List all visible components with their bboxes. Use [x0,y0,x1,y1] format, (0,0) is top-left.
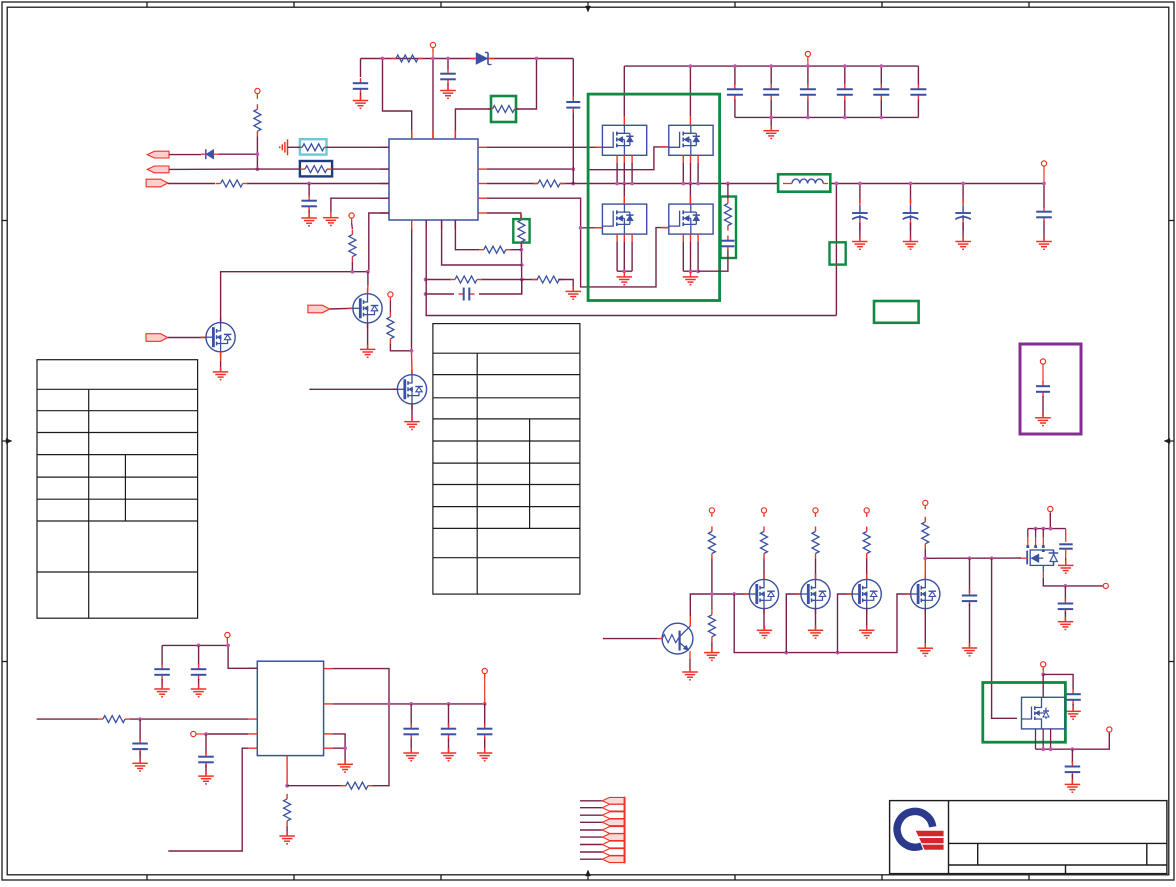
wire - phase bus from U1 to output [487,183,1044,185]
resistor R16 vertical [284,794,291,826]
ground below C2 [440,86,456,99]
ground below M6 [859,625,875,638]
junction dots boot node [571,167,575,185]
chassis ground symbol (rotated, left of R3) [280,139,292,155]
ground below C23 [441,748,456,761]
terminal pull-up 5 [923,500,928,509]
U1 pin stubs [380,130,487,229]
wire - R2 left lead to U1 top pin [455,109,491,139]
capacitor C10 filter [301,184,317,218]
connector J6 pin 1 [580,797,624,804]
wire - branch from rail down to U1 VCC pins [383,59,434,140]
diode D1 (schottky) on rail [470,53,494,65]
wire - M3 source to ground [411,404,413,421]
resistor R15 [98,716,130,723]
wire - U2 out bus y=703.9 [333,703,485,705]
wire - VBUS feeds to Q1 and Q2 drains [624,64,692,125]
wire - R3 to U1 pin [292,146,389,148]
capacitor C27 [1058,586,1074,621]
ground below R19 [704,648,720,661]
junction dot U2 gnd [285,784,289,788]
connector J4 [146,334,168,342]
ground below C16 [1036,237,1052,250]
wire - opto emitter to ground [689,651,691,671]
table (notes, left) [37,360,198,619]
connector J6 pin 5 [580,827,624,834]
wire - boot cap branch joins phase bus [572,166,574,184]
wire - feedback line into U2 [37,718,249,720]
fuse F1 green highlight box [830,242,846,264]
terminal pull-up 3 [813,508,818,517]
wire - M7 source to ground [924,609,926,648]
junction dot Q5 out [1064,584,1068,588]
resistor R20 vertical [761,527,768,559]
wire - U1 pin y=169 to boot node [487,168,573,170]
resistor R3 in cyan highlight box [297,139,329,154]
wire - U1 pin y=213 to sense divider [487,213,521,219]
capacitor C5 bulk bank [763,84,779,100]
ground below C24 [477,748,493,761]
capacitor C26 [1059,529,1073,565]
regulator U2 IC [257,661,323,755]
transistor M2 (circle MOSFET) [347,288,382,328]
capacitor C7 bulk bank [837,84,853,100]
ground at U1 pin (y=198) [323,198,389,225]
wire - M6 gate riser [838,594,853,653]
wire - R14 to M3 drain node [390,344,413,353]
junction dots cap bank [733,64,883,119]
op-amp / controller U1 main IC [389,139,478,220]
capacitor C24 [477,704,493,752]
wire - drain node to cap branch [1043,674,1073,690]
wire - M3 gate long lead [309,388,397,390]
wire - U1 pin x=411.7 down to M3 drain [411,229,414,375]
ground below C25 [962,643,977,656]
capacitor C29 [1065,749,1081,783]
wire - source finger stubs [1026,529,1044,552]
capacitor C2 with ground [440,59,456,90]
ground below R16 [279,831,295,844]
transistor M3 (circle MOSFET) [392,369,427,409]
wire - row y=294 with C11 [426,280,522,295]
connector J6 pin 6 [580,834,624,841]
terminal VOUT right [1041,161,1046,184]
wire - R18 to gate bus [711,559,713,595]
junction dots source rails [622,269,700,273]
capacitor C4 bulk bank [727,84,743,100]
junction dot at filter node [307,182,311,186]
junction dots node y=271.7 [351,270,370,274]
resistor R17 [341,782,373,789]
ground at U2 right [337,759,353,772]
terminal pull-up 4 [864,508,869,517]
wire - U2 out pin y=668.6 to column [333,669,389,704]
junction dots input node [256,152,260,171]
wire - M5 gate riser [786,594,801,653]
terminal U2 VIN [225,632,230,645]
transistor Q4 (low-side right) [669,204,713,234]
ground below Q4 [683,272,698,285]
connector J1 (input A) [147,151,169,158]
wire - opto collector up to gate bus [690,594,750,626]
junction dots output bus [835,182,1046,186]
junction dots lower rail [784,651,839,655]
wire - U1 pin y=213 routed left and down [369,213,389,272]
ground below C13 [852,237,868,250]
capacitor C13 (polarized) [852,199,868,241]
capacitor C20 [132,719,148,762]
wire - Q1/Q2 source pins to phase bus [617,155,698,183]
terminal pull-up top [255,88,260,99]
wire - Q3/Q4 source pins to ground rails [617,234,698,271]
ground below C20 [132,758,148,771]
terminal VBUS [805,51,810,66]
wire - J1 to diode D2 [169,154,201,156]
spare green highlight box [874,301,919,323]
ground below C22 [403,748,419,761]
capacitor C14 (polarized) [903,199,919,241]
wire - R23 to M7 drain node [924,549,926,580]
connector J6 spine [624,797,626,864]
transistor Q5 (P-FET horizontal) [1021,550,1058,572]
ground below M2 [360,344,376,357]
capacitor C22 [403,704,419,752]
connector J6 pin 2 [580,804,624,811]
transistor M4 (circle MOSFET) [744,574,779,614]
resistor R22 vertical [863,527,870,559]
transistor M5 (circle MOSFET) [795,574,830,614]
wire - snubber top to phase bus [727,184,729,199]
resistor R5 in navy highlight box [300,161,332,176]
junction dot feedback [138,717,142,721]
wire - row y=250 to U1 pin [455,220,521,250]
wire - Q5 drain to output [1043,572,1106,586]
resistor R21 vertical [812,527,819,559]
connector J6 pin 3 [580,812,624,819]
wire - D2 to node at x=257.4 [219,153,258,155]
wire - drive input to opto [603,638,658,640]
junction dots divider column [520,248,524,282]
wire - gate bus drop and lower rail [734,594,911,653]
wire - R19 to ground [711,642,713,652]
resistor R6 [216,180,248,187]
wire - U2 GND pin with resistor to ground [286,765,288,786]
ground below C29 [1065,779,1081,792]
wire - P-FET source bus [1028,528,1066,530]
connector J3 (input C) [146,179,168,187]
resistor R7 on phase bus [533,180,565,187]
wire - Q6 source pins to rail [1036,729,1110,749]
ground below C14 [903,237,918,250]
resistor R13 vertical [349,223,356,262]
terminal inside purple box [1040,359,1045,383]
resistor R10 [450,276,482,283]
wire - EN to U2 [204,732,248,736]
terminal gate bias [388,292,393,301]
ground below M5 [808,625,823,638]
capacitor C28 [1065,689,1081,710]
wire - bus VBUS top y=66.1 [624,65,918,67]
wire - R5 to U1 [332,168,389,170]
capacitor C11 (horizontal) [459,288,475,301]
wire - U1 to Q1 gate [487,145,602,149]
wire - row y=785.7 to feedback column [287,704,389,786]
capacitor C21 [198,734,214,775]
wire - R21 to M5 drain [815,559,817,580]
wire - output cap stems [860,184,963,204]
wire - node y=558.3 to P-FET gate [925,557,1021,559]
connector J6 pin 8 [580,849,624,856]
wire - bus bottom of cap bank [735,116,919,118]
resistor R2 in green highlight box [488,96,520,122]
terminal U2 EN [191,731,206,736]
wire - U1 pin x=426 down and right (sense return) [426,220,836,316]
wire - U2 pin y=748 left and down [168,748,248,851]
connector J6 pin 9 [580,856,624,863]
connector J5 [308,305,330,313]
transistor M6 (circle MOSFET) [847,574,882,614]
wire - M1 drain up and right to node [221,272,368,323]
junction dots VIN node [197,644,230,648]
ground below C10 [301,213,317,226]
wire - node down to M2 drain [367,272,369,294]
wire - J2 to R5 [169,168,300,170]
wire - U2 pins y=734/748 to ground [333,734,347,763]
wire - R22 to M6 drain [866,559,868,580]
ground below opto [682,667,698,680]
ground below C27 [1058,617,1074,630]
ground below C19 [191,684,207,697]
junction dots Q6 rail [1041,747,1074,751]
wire - M4 source to ground [763,609,765,630]
capacitor C15 (polarized) [955,199,971,241]
diode D2 (pointing left) [201,149,219,159]
junction dots on x=426 column [424,278,428,296]
transistor Q6 in green highlight box [983,683,1066,743]
wire - R4 down to input node [256,136,258,169]
transistor Q3 (low-side left) [602,204,646,234]
resistor R18 vertical [708,527,715,559]
ground below R11 [566,286,582,299]
wire - sense return up to phase bus [835,182,839,316]
capacitor C23 [441,704,456,752]
wire - Q3 gate from node [579,226,603,230]
terminal VIN top [430,42,435,58]
ground below C21 [198,771,214,784]
wire - capacitor bank stems [735,66,919,117]
wire - row y=265 to U1 pin [442,220,522,265]
wire - R13 to node [351,262,353,272]
ground below C18 [154,684,170,697]
wire - M5 source to ground [815,609,817,630]
terminal Q6 source [1107,727,1112,732]
terminal Q6 drain [1041,662,1046,675]
transistor M7 (circle MOSFET) [905,574,940,614]
connector J6 pin 4 [580,819,624,826]
ground below C15 [955,237,971,250]
capacitor C9 bulk bank [910,84,926,100]
wire - row y=279.5 [426,279,538,281]
ground below M4 [757,625,772,638]
resistor R9 row y=250 [479,246,511,253]
ground below M7 [918,643,934,656]
wire - R11 to ground [558,280,573,291]
wire - J5 to M2 gate [330,307,353,310]
capacitor C18 [154,645,170,688]
inductor L1 in green highlight box [778,174,830,191]
wire - top supply rail y=58.5 with branch corners [361,59,574,167]
junction dots y=558.3 [923,556,993,560]
resistor R23 vertical [922,517,929,549]
ground below C28 [1065,706,1081,719]
ground below C1 [353,96,368,109]
terminal 3V3 out [482,668,487,704]
ground below Q3 [617,272,633,285]
snubber cap module in purple highlight box [1020,344,1081,434]
capacitor C19 [191,645,207,688]
wire - gate link to Q2 (jog) [588,147,669,170]
ground of cap bank [764,117,780,138]
logo (company mark) [897,811,944,849]
resistor R11 [532,276,564,283]
snubber R12+C12 in green highlight box [721,197,737,259]
opto-transistor U3 (circle) [657,623,692,654]
wire - R20 to M4 drain [763,559,765,580]
transistor Q1 (high-side left) [602,125,646,155]
capacitor C17 in purple box [1036,381,1050,397]
wire - M2 source to ground [367,323,369,349]
junction dots P-FET bus [1034,527,1053,531]
ground below C26 [1058,560,1074,573]
resistor R14 vertical [387,301,394,344]
connector J2 (input B) [147,166,169,173]
wire - M6 source to ground [866,609,868,630]
capacitor C25 [962,558,977,647]
transistor M1 (circle MOSFET) [201,317,236,357]
ground below M3 [404,417,420,430]
U2 pin stubs [248,668,332,764]
resistor R8 in green highlight box (vertical) [513,215,529,247]
ground below M1 [213,367,229,380]
resistor R19 vertical (lower) [708,594,715,642]
series capacitor C3 in x=573 branch [566,97,580,113]
terminal pull-up 2 [761,508,766,517]
table (notes, middle) [433,324,580,594]
connector J6 pin 7 [580,841,624,848]
wire - J3 to R6 to U1 [168,183,389,185]
junction dots on supply rail [381,57,539,61]
wire - C17 to ground [1042,396,1044,417]
capacitor C16 output [1036,184,1052,241]
resistor R1 on supply rail [391,55,423,62]
junction dot Q6 drain [1041,673,1045,677]
terminal Q5 out [1103,583,1108,588]
junction dots gate bus [710,592,736,596]
wire - VIN node to U2 [162,645,257,668]
Q6 MOSFET symbol [1022,674,1050,729]
junction dots out bus [387,702,487,706]
junction dots phase bus [615,182,730,186]
wire - divider column x=521 [520,243,522,294]
capacitor C6 bulk bank [800,84,816,100]
wire - Q3/Q4 drain pins from phase bus [624,184,690,205]
capacitor C8 bulk bank [873,84,889,100]
resistor R4 vertical [254,104,261,136]
wire - M1 source to ground [220,352,222,371]
capacitor C1 (left decoupling) with stem [353,59,368,100]
wire - snubber bottom to Q4 source rail [698,251,728,272]
wire - J4 to M1 gate [168,337,206,339]
terminal bias top [349,213,354,223]
wire - R16 to ground [286,826,288,835]
wire - gate feed to Q6 [992,558,1017,718]
wire - U1 pin y=198 to low-side gates [487,198,669,287]
H-bridge module group box (green) [588,94,720,300]
transistor Q2 (high-side right) [669,125,713,155]
wire - R2 right lead up to rail [516,59,537,110]
title block [890,801,1167,874]
terminal P-FET supply [1048,506,1053,528]
ground in purple box [1035,413,1051,426]
terminal pull-up 1 [709,508,714,517]
